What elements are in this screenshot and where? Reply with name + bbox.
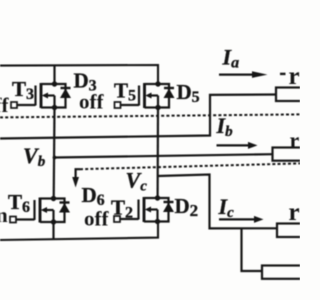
svg-text:Ic: Ic [218, 194, 235, 221]
svg-text:T3: T3 [12, 77, 34, 103]
transistor T5 [115, 83, 159, 108]
svg-text:on: on [0, 203, 8, 227]
lower load box (phase return) [262, 266, 303, 279]
node: T5 drain junction [155, 81, 160, 86]
top DC bus (+) [0, 65, 158, 84]
bottom DC bus (-) [0, 221, 158, 240]
dashed commutation path (lower) [80, 163, 300, 169]
diode D2 (antiparallel) [158, 198, 175, 222]
svg-text:off: off [79, 90, 104, 114]
load resistor box rc [277, 224, 303, 238]
wire phase-c line Vc to load rc [158, 175, 278, 229]
svg-text:off: off [0, 93, 9, 117]
load resistor box ra [276, 88, 303, 102]
svg-text:Ib: Ib [216, 113, 234, 140]
dashed commutation path (upper) [0, 114, 300, 117]
svg-text:off: off [84, 207, 109, 231]
current arrow Ia [219, 71, 286, 78]
svg-text:r: r [289, 199, 300, 226]
load resistor box rb [273, 148, 303, 161]
node: T2 drain junction [155, 195, 160, 200]
node: Vb tap [53, 156, 57, 160]
svg-text:D5: D5 [177, 80, 200, 106]
wire phase-b vertical (T3 source to T6 drain) [53, 108, 56, 199]
node: T2 source junction [155, 219, 160, 224]
wire branch to lower load box [242, 228, 263, 271]
svg-text:r: r [289, 63, 300, 90]
wire phase-b line Vb to load rb [55, 154, 274, 157]
arrow into D6 (commutation direction) [72, 169, 80, 187]
wire T3 drain to bus [53, 65, 55, 84]
current arrow Ib [217, 142, 258, 149]
svg-text:Ia: Ia [222, 45, 240, 72]
node: T3 drain junction [52, 81, 57, 86]
diode D6 (antiparallel) [54, 199, 71, 223]
svg-text:Vb: Vb [23, 143, 46, 170]
svg-text:D2: D2 [175, 194, 199, 220]
node: T6 drain junction [51, 196, 56, 201]
current arrow Ic [219, 216, 264, 223]
transistor T6 [10, 198, 54, 223]
wire T6 source to bottom bus [52, 222, 54, 240]
transistor T3 [11, 83, 55, 108]
svg-text:T5: T5 [114, 79, 136, 105]
svg-text:Vc: Vc [126, 168, 148, 195]
node: phase-b upper junction [52, 105, 57, 110]
diode D3 (antiparallel) [55, 84, 72, 108]
svg-text:T2: T2 [111, 196, 133, 222]
svg-text:r: r [290, 128, 300, 153]
wire phase-a line Va to load ra [0, 95, 277, 139]
svg-text:T6: T6 [8, 190, 30, 216]
diode D5 (antiparallel) [158, 84, 175, 108]
wire phase-c vertical (T5 source to T2 drain) [157, 108, 160, 199]
node: T6 source junction [51, 219, 56, 224]
node: phase-c upper junction [155, 105, 160, 110]
svg-text:D6: D6 [82, 183, 105, 209]
transistor T2 [114, 197, 158, 222]
